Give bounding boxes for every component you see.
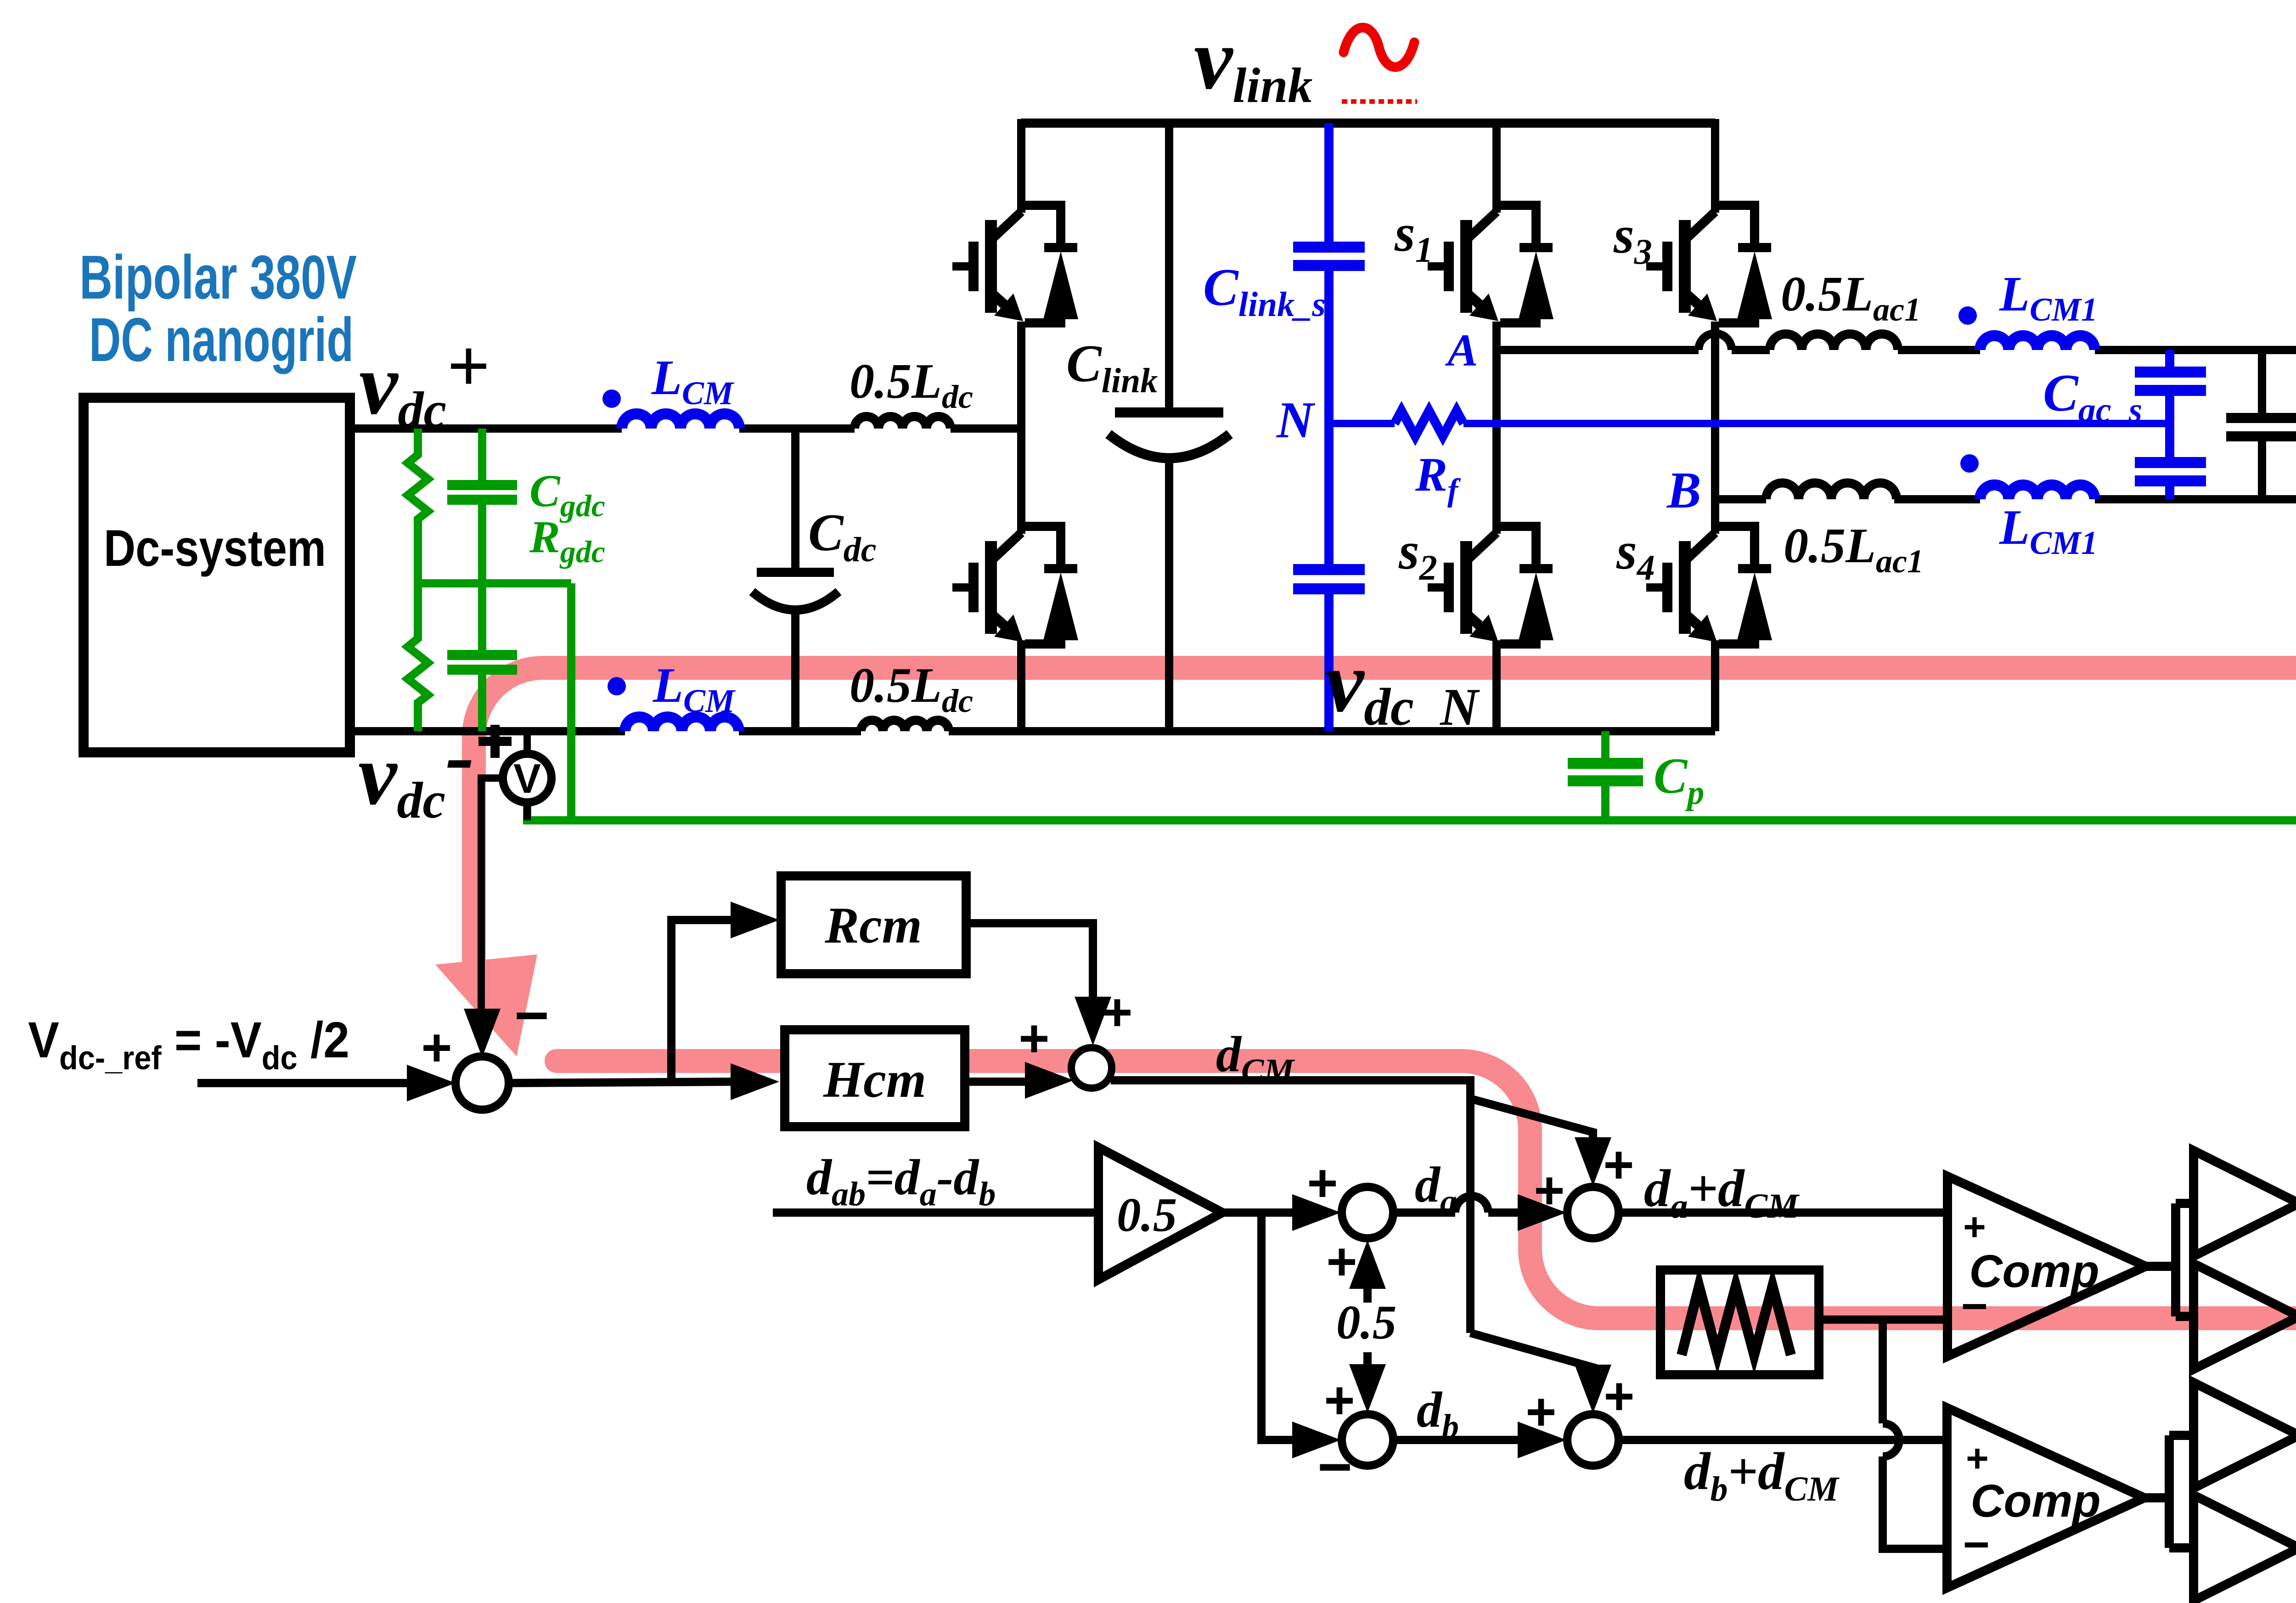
summing node da [1342, 1187, 1393, 1238]
wire vdc+ rail [350, 424, 622, 433]
svg-text:+: + [1534, 1161, 1564, 1220]
transistor S1 [1428, 205, 1553, 323]
capacitor Cac_s upper plates [2135, 372, 2206, 390]
arrow down into summing node da+dCM [1575, 1137, 1611, 1186]
wire sawtooth output to Comp1 minus [1819, 1315, 1947, 1324]
summing node da+dCM [1567, 1187, 1619, 1238]
svg-text:Hcm: Hcm [823, 1051, 926, 1108]
arrow into Hcm [731, 1063, 779, 1100]
inductor 0.5Ldc top [855, 417, 951, 429]
svg-text:+: + [1019, 1009, 1049, 1068]
inductor LCM1 top (blue) [1980, 336, 2095, 350]
arrow into summing node da [1292, 1194, 1341, 1231]
arrow down into summing node db+dCM [1575, 1365, 1611, 1413]
svg-text:+: + [1102, 983, 1132, 1042]
svg-text:+: + [1603, 1135, 1634, 1194]
highlighted CM feedback loop path (pink) [474, 668, 2296, 1318]
wire sawtooth branch down to Comp2 minus [1883, 1320, 1947, 1549]
Dc-system box [84, 398, 350, 752]
wire hop of sawtooth branch over db+dCM line [1883, 1423, 1899, 1456]
arrow into summing node db [1292, 1422, 1341, 1458]
arrow down into summing node db [1349, 1364, 1386, 1413]
capacitor Cac_s branch (blue) [2165, 350, 2174, 499]
wire hop on da line over dCM vertical [1455, 1196, 1488, 1213]
wire db+dCM line to Comp2 [1619, 1436, 1947, 1444]
capacitor Cgdc upper (green) [478, 429, 486, 583]
svg-text:Rcm: Rcm [824, 897, 922, 954]
wire hop over leg3 on node A line [1699, 333, 1732, 350]
arrow from Hcm into summing node 2 [1025, 1062, 1074, 1099]
summing node db [1342, 1414, 1393, 1466]
comparator Comp1 [1947, 1176, 2146, 1356]
wire bridge leg 2 (S1/S2) [1492, 119, 1501, 731]
inductor 0.5Lac1 top [1770, 334, 1898, 350]
svg-text:0.5: 0.5 [1336, 1295, 1396, 1349]
arrow into summing node db+dCM from left [1518, 1422, 1566, 1458]
svg-text:−: − [514, 982, 549, 1049]
inductor LCM1 bottom (blue) [1980, 485, 2095, 499]
svg-text:Bipolar 380V: Bipolar 380V [79, 243, 357, 312]
svg-text:Comp: Comp [1969, 1246, 2099, 1297]
capacitor Cdc [757, 568, 834, 577]
wire 0.5 feed up into da sum [1363, 1269, 1372, 1303]
red dashed underline [1342, 99, 1417, 104]
plus sign at voltmeter [478, 725, 512, 758]
buffer S3 [2194, 1383, 2296, 1488]
wire bridge leg 3 (S3/S4) [1711, 119, 1719, 731]
transistor S2 [1428, 526, 1553, 644]
wire da line [1393, 1208, 1525, 1217]
polarity dot LCM1 bottom [1960, 454, 1979, 473]
summing node db+dCM [1567, 1414, 1619, 1466]
polarity dot LCM1 top [1958, 306, 1977, 325]
wire sensing line from V to summing node [481, 778, 503, 1016]
transistor upper IGBT of leg 1 [952, 205, 1078, 323]
capacitor Clink_s branch (blue) [1324, 123, 1334, 731]
wire summing node 1 to Hcm [509, 1082, 735, 1083]
summing node 2 (dCM) [1071, 1048, 1112, 1088]
capacitor Cac [2226, 413, 2296, 423]
svg-text:0.5: 0.5 [1117, 1188, 1177, 1242]
buffer S4 (inverting) [2194, 1495, 2296, 1601]
wire node N line (blue) [1329, 420, 2170, 427]
wire green CM return bottom line [527, 803, 2296, 820]
svg-text:B: B [1666, 462, 1701, 519]
wire Vdc-_ref input line [197, 1079, 418, 1087]
transistor lower IGBT of leg 1 [952, 526, 1078, 644]
inductor 0.5Ldc bottom [861, 720, 949, 731]
buffer S2 (inverting) [2194, 1264, 2296, 1369]
red AC ripple symbol above vlink [1344, 28, 1414, 67]
arrow from Rcm into summing node 2 [1075, 997, 1111, 1045]
capacitor Cp plates (green) [1568, 763, 1643, 781]
wire diagonal branch to sum db+dCM [1470, 1333, 1593, 1374]
polarity dot LCM bottom [608, 677, 626, 695]
comparator Comp2 [1947, 1408, 2144, 1588]
gain block 0.5 triangle [1098, 1147, 1222, 1280]
wire 0.5 feed down into db sum [1363, 1352, 1372, 1383]
svg-text:−: − [1961, 1281, 1988, 1332]
block Rcm [781, 876, 966, 974]
resistor Rgdc lower (green) [408, 583, 428, 731]
polarity dot LCM top [602, 389, 621, 408]
svg-text:+: + [1326, 1232, 1357, 1291]
arrow into summing node 1 from sensor [464, 1009, 501, 1057]
svg-text:+: + [421, 1018, 452, 1077]
wire branch up to Rcm [671, 920, 735, 1083]
resistor Rf (blue) [1395, 411, 1463, 436]
svg-text:−: − [1317, 1433, 1352, 1500]
wire green vertical from RC midpoint down to CM return line [567, 583, 575, 820]
wire dCM output line [1111, 1080, 1470, 1333]
svg-text:V: V [513, 756, 541, 802]
inductor 0.5Lac1 bottom [1766, 483, 1896, 500]
wire bridge leg 1 [1017, 119, 1025, 731]
wire diagonal branch to sum da+dCM [1470, 1099, 1593, 1145]
capacitor Clink_s upper plates [1293, 247, 1365, 265]
arrow into Rcm [731, 902, 779, 938]
buffer S1 [2194, 1151, 2296, 1256]
block sawtooth carrier box [1660, 1270, 1819, 1375]
svg-text:+: + [1604, 1367, 1634, 1426]
wire Cdc branch [791, 429, 799, 572]
svg-text:+: + [1525, 1383, 1556, 1441]
arrow up into summing node da [1349, 1240, 1386, 1289]
svg-text:+: + [1963, 1205, 1986, 1249]
wire da+dCM line to Comp1 [1619, 1208, 1947, 1217]
wire node A line [1497, 346, 1699, 354]
capacitor Clink_s lower plates [1293, 570, 1365, 589]
wire Rcm output to summing node 2 [966, 923, 1093, 1004]
wire 0.5 gain output and branch [1222, 1208, 1297, 1217]
voltmeter sensor circle V [481, 731, 551, 1016]
svg-text:Comp: Comp [1970, 1475, 2100, 1527]
svg-text:A: A [1445, 325, 1478, 376]
svg-text:+: + [1966, 1437, 1989, 1480]
wire dab input line [773, 1208, 1098, 1217]
svg-text:Dc-system: Dc-system [104, 519, 326, 577]
arrow into summing node 1 [407, 1065, 456, 1101]
svg-text:−: − [1963, 1519, 1990, 1570]
wire green RC midpoint line [418, 579, 571, 587]
block Hcm [785, 1030, 965, 1127]
wire db line [1393, 1436, 1525, 1444]
wire dc-link top bus [1021, 119, 1715, 128]
wire Comp1 output and gate bracket [2146, 1203, 2194, 1316]
arrow into summing node da+dCM from left [1518, 1194, 1566, 1231]
svg-text:+: + [1307, 1154, 1338, 1213]
pink loop arrowhead [435, 954, 537, 1056]
capacitor Cgdc lower (green) [478, 583, 486, 731]
capacitor Cac_s lower plates [2135, 463, 2206, 481]
inductor LCM top (blue) [622, 414, 739, 429]
transistor S4 [1646, 526, 1772, 644]
capacitor Cp branch (green) [1601, 731, 1609, 820]
wire Clink branch [1165, 123, 1173, 412]
svg-text:+: + [1324, 1371, 1355, 1430]
capacitor Cac branch [2258, 350, 2266, 418]
summing node 1 [456, 1056, 509, 1110]
resistor Rgdc upper (green) [408, 429, 428, 583]
wire Comp2 output and gate bracket [2144, 1435, 2194, 1548]
svg-text:N: N [1276, 392, 1316, 449]
wire Hcm output [965, 1078, 1031, 1086]
svg-text:DC nanogrid: DC nanogrid [89, 305, 354, 374]
wire vdc- rail [350, 727, 625, 735]
wire node B line [1715, 495, 1766, 503]
inductor LCM bottom (blue) [625, 717, 739, 731]
transistor S3 [1646, 205, 1772, 323]
sawtooth waveform [1682, 1286, 1791, 1355]
capacitor Clink [1115, 407, 1223, 418]
